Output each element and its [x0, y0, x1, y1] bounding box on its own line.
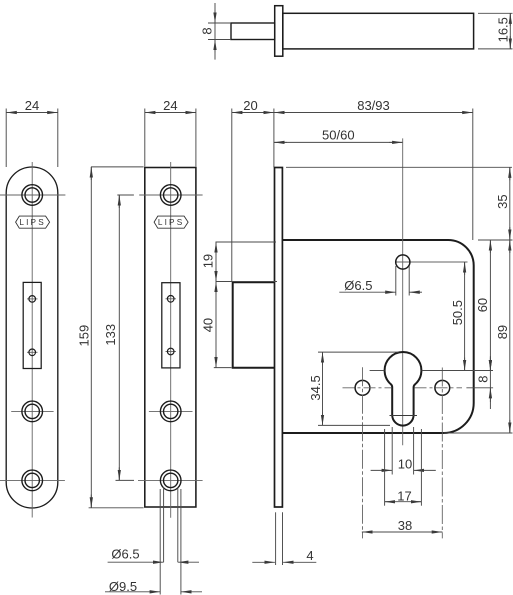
dim 40 [201, 282, 232, 368]
svg-text:133: 133 [103, 324, 118, 346]
dim 50.5 [450, 262, 465, 371]
cylinder center extension line right [422, 370, 493, 372]
deadbolt [233, 282, 275, 367]
euro profile chord line [390, 415, 418, 417]
euro profile cylinder cutout [385, 352, 422, 426]
svg-text:8: 8 [200, 27, 215, 34]
spindle shaft (top view) [231, 23, 275, 40]
middle plate top hole centerline [139, 194, 202, 196]
svg-text:4: 4 [306, 548, 313, 563]
svg-text:Ø6.5: Ø6.5 [111, 547, 139, 562]
svg-text:89: 89 [495, 325, 510, 339]
svg-text:LIPS: LIPS [158, 218, 185, 227]
svg-text:24: 24 [25, 98, 39, 113]
svg-text:8: 8 [476, 376, 491, 383]
left plate middle screw hole [11, 410, 53, 412]
dim 159 [77, 167, 144, 508]
svg-text:159: 159 [77, 325, 92, 347]
faceplate flange (top view) [275, 6, 283, 57]
side holes centerline [343, 387, 392, 389]
faceplate top extension line [286, 166, 512, 168]
svg-text:20: 20 [243, 98, 257, 113]
left plate top screw hole [22, 185, 43, 206]
svg-text:Ø9.5: Ø9.5 [109, 579, 137, 594]
lock body (top view) [283, 13, 474, 49]
left plate bottom screw hole [0, 479, 65, 481]
svg-text:50/60: 50/60 [322, 128, 355, 143]
dim 20 [232, 98, 274, 281]
svg-text:40: 40 [201, 318, 216, 332]
middle plate bottom screw hole [138, 479, 203, 481]
top fixing hole [396, 261, 468, 263]
LIPS badge middle plate [154, 216, 188, 228]
dim 89 [495, 240, 510, 433]
dim 133 [103, 195, 134, 480]
cutout hole 2 left plate [27, 351, 38, 353]
cutout hole 1 left plate [27, 298, 38, 300]
svg-text:83/93: 83/93 [357, 98, 390, 113]
hub extension line [466, 387, 493, 389]
side hole right [435, 380, 450, 395]
lock case outline [282, 240, 473, 433]
middle plate latch cutout [162, 283, 180, 368]
cutout hole 1 middle plate [166, 298, 177, 300]
cylinder vertical centerline [402, 138, 404, 445]
dim 4 [252, 512, 316, 565]
left plate latch cutout [23, 282, 41, 368]
left faceplate outline [6, 167, 58, 508]
dim 34.5 [308, 352, 399, 425]
svg-text:16.5: 16.5 [496, 17, 511, 42]
dim diameter 6.5 top hole [339, 266, 422, 296]
dim 16.5 (top view) [478, 13, 513, 49]
dim 24 middle plate [145, 98, 196, 167]
dim diameter 6.5 bottom callout [108, 487, 199, 562]
dim 24 left plate [6, 98, 58, 167]
middle plate vertical centerline [170, 162, 172, 518]
middle plate top screw hole [160, 185, 181, 206]
dim 60 [475, 240, 490, 371]
svg-text:34.5: 34.5 [308, 375, 323, 400]
dim 83/93 [274, 98, 473, 240]
svg-text:35: 35 [495, 194, 510, 208]
svg-text:19: 19 [201, 254, 216, 268]
dim 8 (top view) [200, 3, 232, 60]
left plate top hole centerline [0, 194, 65, 196]
dim 38 [362, 518, 442, 533]
middle plate middle screw hole [149, 410, 193, 412]
svg-text:17: 17 [397, 489, 411, 504]
side hole left vertical centerline [362, 367, 364, 538]
svg-text:60: 60 [475, 298, 490, 312]
LIPS badge left plate [16, 216, 50, 228]
left plate vertical centerline [31, 162, 33, 518]
dim 19 [201, 242, 278, 282]
lock faceplate (front view) [275, 168, 283, 508]
side hole right vertical centerline [441, 368, 443, 539]
side hole left [355, 380, 370, 395]
dim 10 [371, 427, 436, 475]
svg-text:10: 10 [398, 456, 412, 471]
svg-text:50.5: 50.5 [450, 300, 465, 325]
svg-text:LIPS: LIPS [19, 218, 46, 227]
dim diameter 9.5 bottom callout [105, 489, 202, 595]
case top extension line [478, 239, 513, 241]
cylinder center extension line left [370, 370, 385, 372]
middle faceplate outline [145, 168, 196, 508]
cutout hole 2 middle plate [166, 351, 177, 353]
svg-text:Ø6.5: Ø6.5 [344, 278, 372, 293]
svg-text:38: 38 [398, 518, 412, 533]
dim 35 [495, 167, 510, 240]
dim 8 (hub offset) [476, 356, 491, 409]
case bottom extension line [444, 432, 513, 434]
dim 17 [385, 429, 422, 506]
svg-text:24: 24 [163, 98, 177, 113]
dim 50/60 [274, 128, 403, 143]
